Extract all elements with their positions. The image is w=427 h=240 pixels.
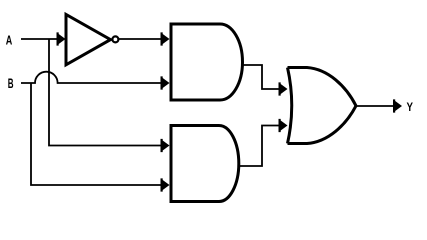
svg-text:A: A xyxy=(6,33,13,48)
svg-text:Y: Y xyxy=(407,100,414,114)
svg-text:B: B xyxy=(8,76,14,91)
